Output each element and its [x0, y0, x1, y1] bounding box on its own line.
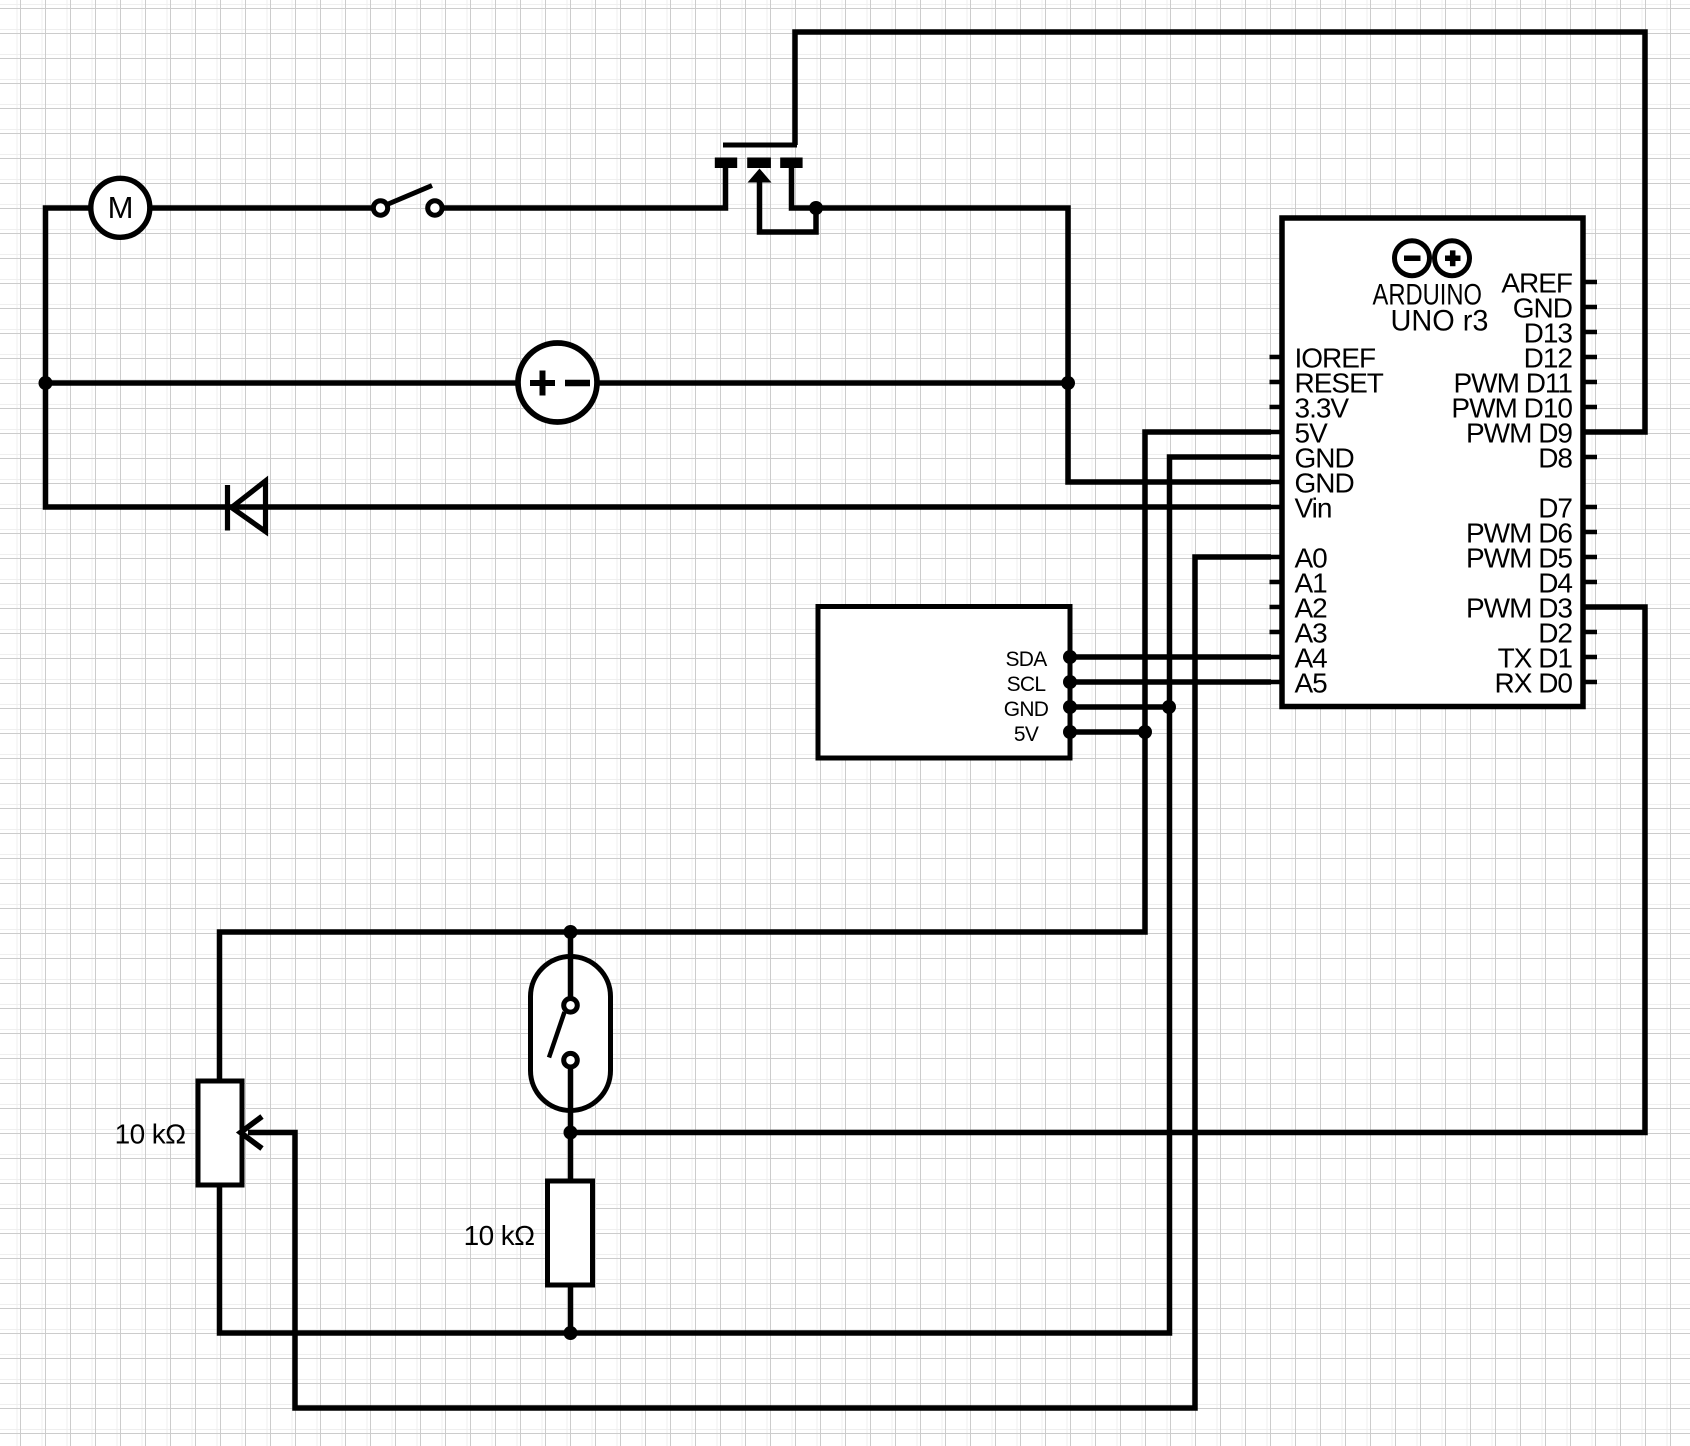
pin stub D2 (right, y=632) — [1583, 630, 1597, 635]
op-amp U1 Arduino UNO r3 box — [1282, 218, 1583, 707]
pin stub A1 (left, y=582) — [1270, 580, 1283, 585]
switch SW1 right contact — [428, 201, 442, 215]
wire: gate lead loop from MOSFET gate up/right/down to Arduino PWM D9 — [795, 32, 1645, 432]
pin stub RX D0 (right, y=682) — [1583, 680, 1597, 685]
motor M1 circle — [91, 178, 150, 237]
svg-text:A5: A5 — [1295, 668, 1328, 699]
wire: Arduino PWM D3 loop down to toggle/resistor junction — [571, 607, 1646, 1133]
svg-text:10 kΩ: 10 kΩ — [464, 1220, 535, 1251]
transistor Q1 drain channel bar — [780, 158, 802, 169]
I2C module U2 box — [818, 607, 1070, 759]
wire: MOSFET drain to x=1068, down, then to Arduino GND pin (y=482) — [792, 162, 1272, 482]
wire: toggle bottom lead through resistor top — [568, 1065, 574, 1183]
svg-text:5V: 5V — [1014, 723, 1039, 746]
pin stub A0 (left, y=557) — [1270, 555, 1283, 560]
pin stub GND (left, y=457) — [1270, 455, 1283, 460]
wire: I2C 5V to 5V rail — [1070, 729, 1145, 735]
node dot: drain node — [809, 201, 823, 215]
pin stub PWM D3 (right, y=607) — [1583, 605, 1597, 610]
pin stub D4 (right, y=582) — [1583, 580, 1597, 585]
diode D1 cathode bar — [225, 485, 230, 531]
wire: Arduino A0 pin to rail, down, across bottom, up to pot wiper — [248, 557, 1271, 1408]
switch SW2 lever — [549, 1012, 565, 1058]
resistor R1 potentiometer body — [198, 1081, 242, 1185]
pin stub RESET (left, y=382) — [1270, 380, 1283, 385]
svg-text:SCL: SCL — [1007, 673, 1046, 696]
I2C pin dot GND — [1063, 700, 1077, 714]
pin stub D8 (right, y=457) — [1583, 455, 1597, 460]
battery V1 plus sign — [530, 371, 555, 396]
transistor Q1 source channel bar — [715, 158, 737, 169]
pin stub A3 (left, y=632) — [1270, 630, 1283, 635]
pin stub GND (right, y=307) — [1583, 305, 1597, 310]
pin stub TX D1 (right, y=657) — [1583, 655, 1597, 660]
wire: I2C GND to GND rail — [1070, 704, 1169, 710]
pin stub A5 (left, y=682) — [1270, 680, 1283, 685]
pin stub D12 (right, y=357) — [1583, 355, 1597, 360]
pin stub AREF (right, y=282) — [1583, 280, 1597, 285]
node dot: I2C GND / GND rail — [1162, 700, 1176, 714]
wire: I2C SDA to Arduino A4 — [1070, 654, 1271, 660]
svg-text:D8: D8 — [1538, 443, 1572, 474]
pin stub Vin (left, y=507) — [1270, 505, 1283, 510]
pin stub A2 (left, y=607) — [1270, 605, 1283, 610]
pin stub 3.3V (left, y=407) — [1270, 405, 1283, 410]
wire: battery branch y=383 from left rail to drain vertical — [46, 380, 1069, 386]
svg-text:Vin: Vin — [1295, 493, 1332, 524]
Arduino logo left ring with minus — [1395, 241, 1430, 276]
transistor Q1 gate bar — [723, 143, 797, 148]
pin stub 5V (left, y=432) — [1270, 430, 1283, 435]
switch SW1 left contact — [373, 201, 387, 215]
wire: resistor bottom lead to ground bus — [568, 1283, 574, 1333]
switch SW1 lever — [387, 186, 432, 205]
I2C pin dot SCL — [1063, 675, 1077, 689]
pin stub PWM D10 (right, y=407) — [1583, 405, 1597, 410]
pin stub GND (left, y=482) — [1270, 480, 1283, 485]
switch SW2 top contact circle — [564, 999, 578, 1013]
svg-text:GND: GND — [1004, 698, 1049, 721]
battery V1 circle — [518, 343, 597, 422]
node dot: left rail / battery branch — [39, 376, 53, 390]
node dot: battery branch / drain vertical — [1061, 376, 1075, 390]
switch SW2 bottom contact circle — [564, 1053, 578, 1067]
node dot: toggle bottom / resistor top / D3 — [564, 1126, 578, 1140]
I2C pin dot SDA — [1063, 650, 1077, 664]
pin stub IOREF (left, y=357) — [1270, 355, 1283, 360]
wire: Arduino 5V pin to 5V rail, down, across to pot top rail — [220, 432, 1272, 1083]
node dot: toggle top / 5V bus — [564, 925, 578, 939]
wire: toggle top lead — [568, 932, 574, 999]
svg-text:UNO r3: UNO r3 — [1391, 305, 1489, 338]
wire: left rail from motor wire down to diode wire, then right to Vin pin — [46, 208, 1272, 507]
wire: motor to switch — [148, 205, 372, 211]
pin stub PWM D5 (right, y=557) — [1583, 555, 1597, 560]
switch SW2 body (stadium outline) — [531, 957, 611, 1111]
Arduino logo right ring with plus — [1435, 241, 1470, 276]
pin stub PWM D9 (right, y=432) — [1583, 430, 1597, 435]
pin stub D7 (right, y=507) — [1583, 505, 1597, 510]
diode D1 triangle — [232, 481, 266, 532]
I2C pin dot 5V — [1063, 725, 1077, 739]
pin stub A4 (left, y=657) — [1270, 655, 1283, 660]
svg-text:SDA: SDA — [1005, 648, 1047, 671]
wire: I2C SCL to Arduino A5 — [1070, 679, 1271, 685]
resistor R1 wiper arrow — [241, 1117, 263, 1149]
svg-text:M: M — [108, 190, 134, 225]
node dot: I2C 5V / 5V rail — [1138, 725, 1152, 739]
battery V1 minus sign — [565, 380, 590, 387]
wire: switch to MOSFET source terminal — [444, 162, 726, 208]
transistor Q1 body channel bar — [747, 158, 771, 169]
svg-text:10 kΩ: 10 kΩ — [115, 1119, 186, 1150]
transistor Q1 body arrow — [748, 169, 772, 183]
pin stub PWM D11 (right, y=382) — [1583, 380, 1597, 385]
svg-text:RX D0: RX D0 — [1495, 668, 1573, 699]
resistor R2 body — [548, 1181, 593, 1285]
pin stub PWM D6 (right, y=532) — [1583, 530, 1597, 535]
pin stub D13 (right, y=332) — [1583, 330, 1597, 335]
wire: Arduino GND pin (y=457) to GND rail, down, bottom ground bus, up to pot bottom — [220, 457, 1272, 1333]
node dot: resistor bottom / ground bus — [564, 1326, 578, 1340]
wire: MOSFET body return to drain node — [760, 178, 817, 232]
